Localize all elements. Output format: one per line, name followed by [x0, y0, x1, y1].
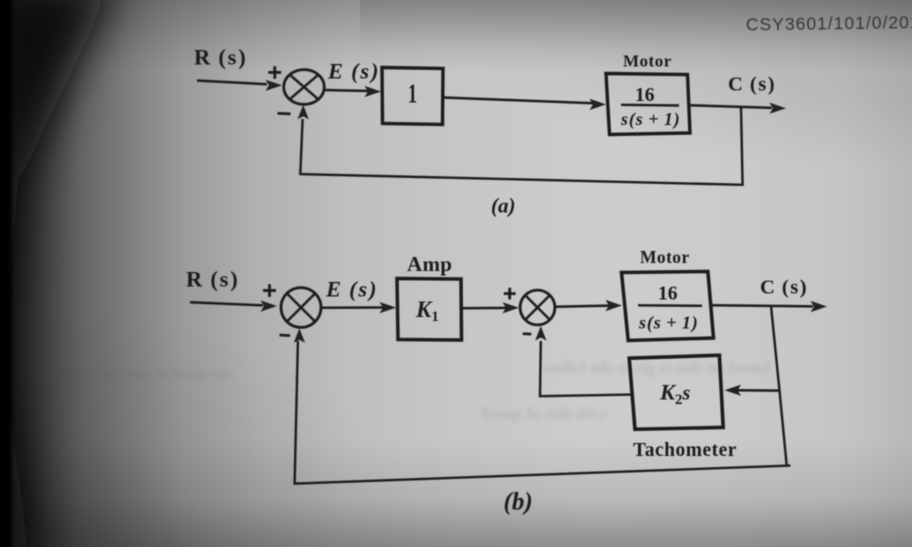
svg-text:based on this is given the fol: based on this is given the follow	[541, 358, 770, 377]
svg-text:E (s): E (s)	[325, 277, 378, 302]
motor block b	[622, 272, 714, 341]
fraction bar b	[638, 304, 702, 307]
svg-text:Motor: Motor	[640, 247, 690, 267]
block G1 value 1	[382, 68, 443, 125]
top shadow band	[0, 0, 912, 72]
left dark page edge	[0, 0, 115, 547]
svg-text:Motor: Motor	[623, 52, 672, 71]
svg-text:16: 16	[635, 85, 655, 106]
arrowhead outer feedback into summer b1	[294, 328, 305, 343]
wire input b	[190, 302, 263, 305]
arrowhead output a	[770, 103, 787, 114]
arrowhead feedback into summer a	[298, 105, 309, 120]
wire summer to K1	[320, 306, 384, 309]
amplifier block K1	[397, 279, 462, 341]
svg-text:R (s): R (s)	[186, 267, 240, 292]
feedback wire a	[300, 107, 742, 185]
svg-text:1: 1	[408, 79, 417, 109]
plus sign a	[268, 66, 281, 79]
arrowhead into summer b1	[261, 300, 278, 311]
tacho branch wire	[737, 389, 780, 392]
minus sign a	[278, 112, 291, 115]
wire summer to block1	[324, 90, 369, 91]
svg-text:s(s + 1): s(s + 1)	[638, 313, 699, 334]
arrowhead into K1	[380, 302, 397, 313]
summing junction S3	[520, 290, 555, 325]
svg-text:16: 16	[658, 284, 678, 305]
wire block1 to motor a	[443, 98, 594, 104]
svg-text:(a): (a)	[491, 194, 516, 218]
arrowhead inner feedback into summer b2	[535, 326, 546, 341]
tachometer block K2s	[629, 355, 723, 429]
plus sign b1	[263, 284, 276, 297]
arrowhead into motor a	[590, 99, 607, 110]
arrowhead into summer b2	[503, 302, 520, 313]
svg-text:Amp: Amp	[407, 252, 452, 276]
svg-text:CSY3601/101/0/201: CSY3601/101/0/201	[746, 12, 912, 34]
wire K1 to summer b2	[462, 307, 508, 310]
svg-text:Tachometer: Tachometer	[633, 440, 737, 461]
arrowhead output b	[811, 301, 828, 312]
svg-text:(b): (b)	[504, 489, 533, 516]
arrowhead into tachometer	[725, 385, 742, 396]
svg-text:C (s): C (s)	[728, 74, 776, 96]
svg-text:with this of speed: with this of speed	[481, 404, 608, 423]
inner feedback wire b	[540, 341, 632, 396]
wire input a	[197, 81, 267, 85]
arrowhead into block1	[365, 86, 382, 97]
fraction bar a	[621, 104, 679, 107]
svg-text:C (s): C (s)	[760, 277, 808, 299]
wire summer b2 to motor b	[555, 306, 609, 307]
minus sign b2	[523, 332, 531, 335]
faint bleed-through text	[35, 358, 770, 423]
svg-text:s(s + 1): s(s + 1)	[620, 109, 681, 130]
top-right corner shadow	[420, 0, 912, 170]
bottom shadow band	[0, 440, 912, 547]
outer feedback wire b	[771, 306, 787, 467]
motor block a	[606, 74, 690, 135]
bottom-left corner shadow	[0, 300, 430, 547]
svg-text:the speed of rotation and give: the speed of rotation and given	[35, 366, 232, 382]
arrowhead into summer a	[266, 80, 283, 91]
wire output b	[712, 305, 814, 306]
summing junction S1	[284, 70, 325, 105]
svg-text:E (s): E (s)	[327, 59, 380, 84]
summing junction S2	[281, 288, 321, 328]
minus sign b1	[280, 334, 291, 337]
plus sign b2	[504, 288, 516, 300]
svg-text:R (s): R (s)	[194, 45, 248, 70]
wire output a	[690, 105, 772, 108]
arrowhead into motor b	[606, 300, 623, 311]
svg-text:K2s: K2s	[659, 380, 691, 409]
